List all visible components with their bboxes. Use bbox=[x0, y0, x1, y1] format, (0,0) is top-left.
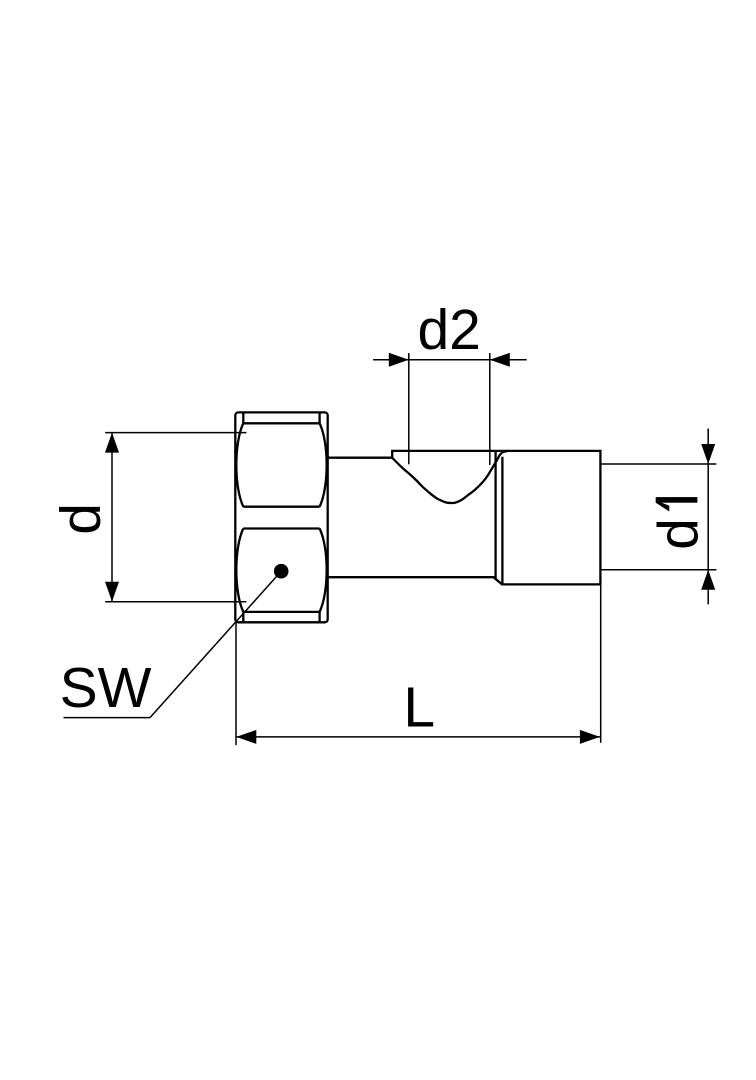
dimension d2 extension line right bbox=[489, 353, 491, 465]
dimension L extension line right bbox=[600, 585, 602, 743]
hex nut chamfer arc bottom-left bbox=[236, 529, 243, 612]
hex nut chamfer arc bottom-right bbox=[320, 529, 327, 612]
SW leader diagonal bbox=[150, 571, 281, 717]
SW leader underline bbox=[64, 717, 151, 719]
dimension d1 line bbox=[707, 429, 709, 605]
dimension L extension line left bbox=[235, 622, 237, 745]
hex nut outer silhouette bbox=[235, 412, 327, 622]
SW leader dot on nut face bbox=[274, 564, 289, 579]
svg-text:d: d bbox=[646, 518, 710, 550]
hex nut chamfer arc top-left bbox=[236, 423, 243, 506]
label d1 digit 1 (drawn, rotated) bbox=[656, 497, 698, 511]
arrowhead d2 left bbox=[389, 353, 409, 367]
hex nut chamfer arc top-right bbox=[320, 423, 327, 506]
dimension L line bbox=[236, 736, 600, 738]
dimension d1 extension line top bbox=[601, 463, 716, 465]
shoulder edge line right bbox=[501, 457, 503, 585]
arrowhead L right bbox=[580, 730, 600, 744]
arrowhead d2 right bbox=[490, 353, 510, 367]
dimension d2 line bbox=[373, 359, 527, 361]
arrowhead d1 bottom bbox=[701, 570, 715, 590]
svg-text:d: d bbox=[49, 503, 113, 535]
dimension d2 extension line left bbox=[408, 353, 410, 464]
shoulder edge line left bbox=[494, 452, 496, 579]
dimension d line bbox=[111, 433, 113, 602]
arrowhead L left bbox=[236, 730, 256, 744]
dimension d extension line bottom bbox=[105, 601, 246, 603]
svg-text:SW: SW bbox=[60, 656, 152, 720]
dimension d extension line top bbox=[105, 432, 246, 434]
hex nut inner face lines bbox=[243, 413, 319, 622]
svg-text:L: L bbox=[403, 676, 435, 740]
body outline: middle cylinder, shoulder step, right cylinder bbox=[328, 451, 601, 585]
dimension d1 extension line bottom bbox=[601, 569, 716, 571]
arrowhead d top bbox=[105, 433, 119, 453]
arrowhead d bottom bbox=[105, 582, 119, 602]
arrowhead d1 top bbox=[701, 444, 715, 464]
pressing notch groove bbox=[392, 451, 507, 503]
svg-text:d2: d2 bbox=[417, 298, 480, 362]
